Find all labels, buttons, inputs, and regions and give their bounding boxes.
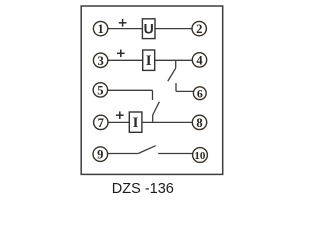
svg-text:8: 8 [196,116,202,130]
svg-text:6: 6 [197,87,203,101]
svg-text:I: I [146,53,152,69]
svg-text:2: 2 [196,22,202,36]
svg-text:5: 5 [97,83,103,97]
svg-text:1: 1 [97,22,103,36]
svg-text:9: 9 [97,148,103,162]
svg-text:3: 3 [97,54,103,68]
svg-text:I: I [133,115,139,131]
svg-text:10: 10 [194,150,206,162]
svg-text:U: U [144,21,154,37]
svg-text:DZS -136: DZS -136 [112,181,174,197]
svg-text:4: 4 [196,53,203,67]
svg-text:7: 7 [98,116,104,130]
